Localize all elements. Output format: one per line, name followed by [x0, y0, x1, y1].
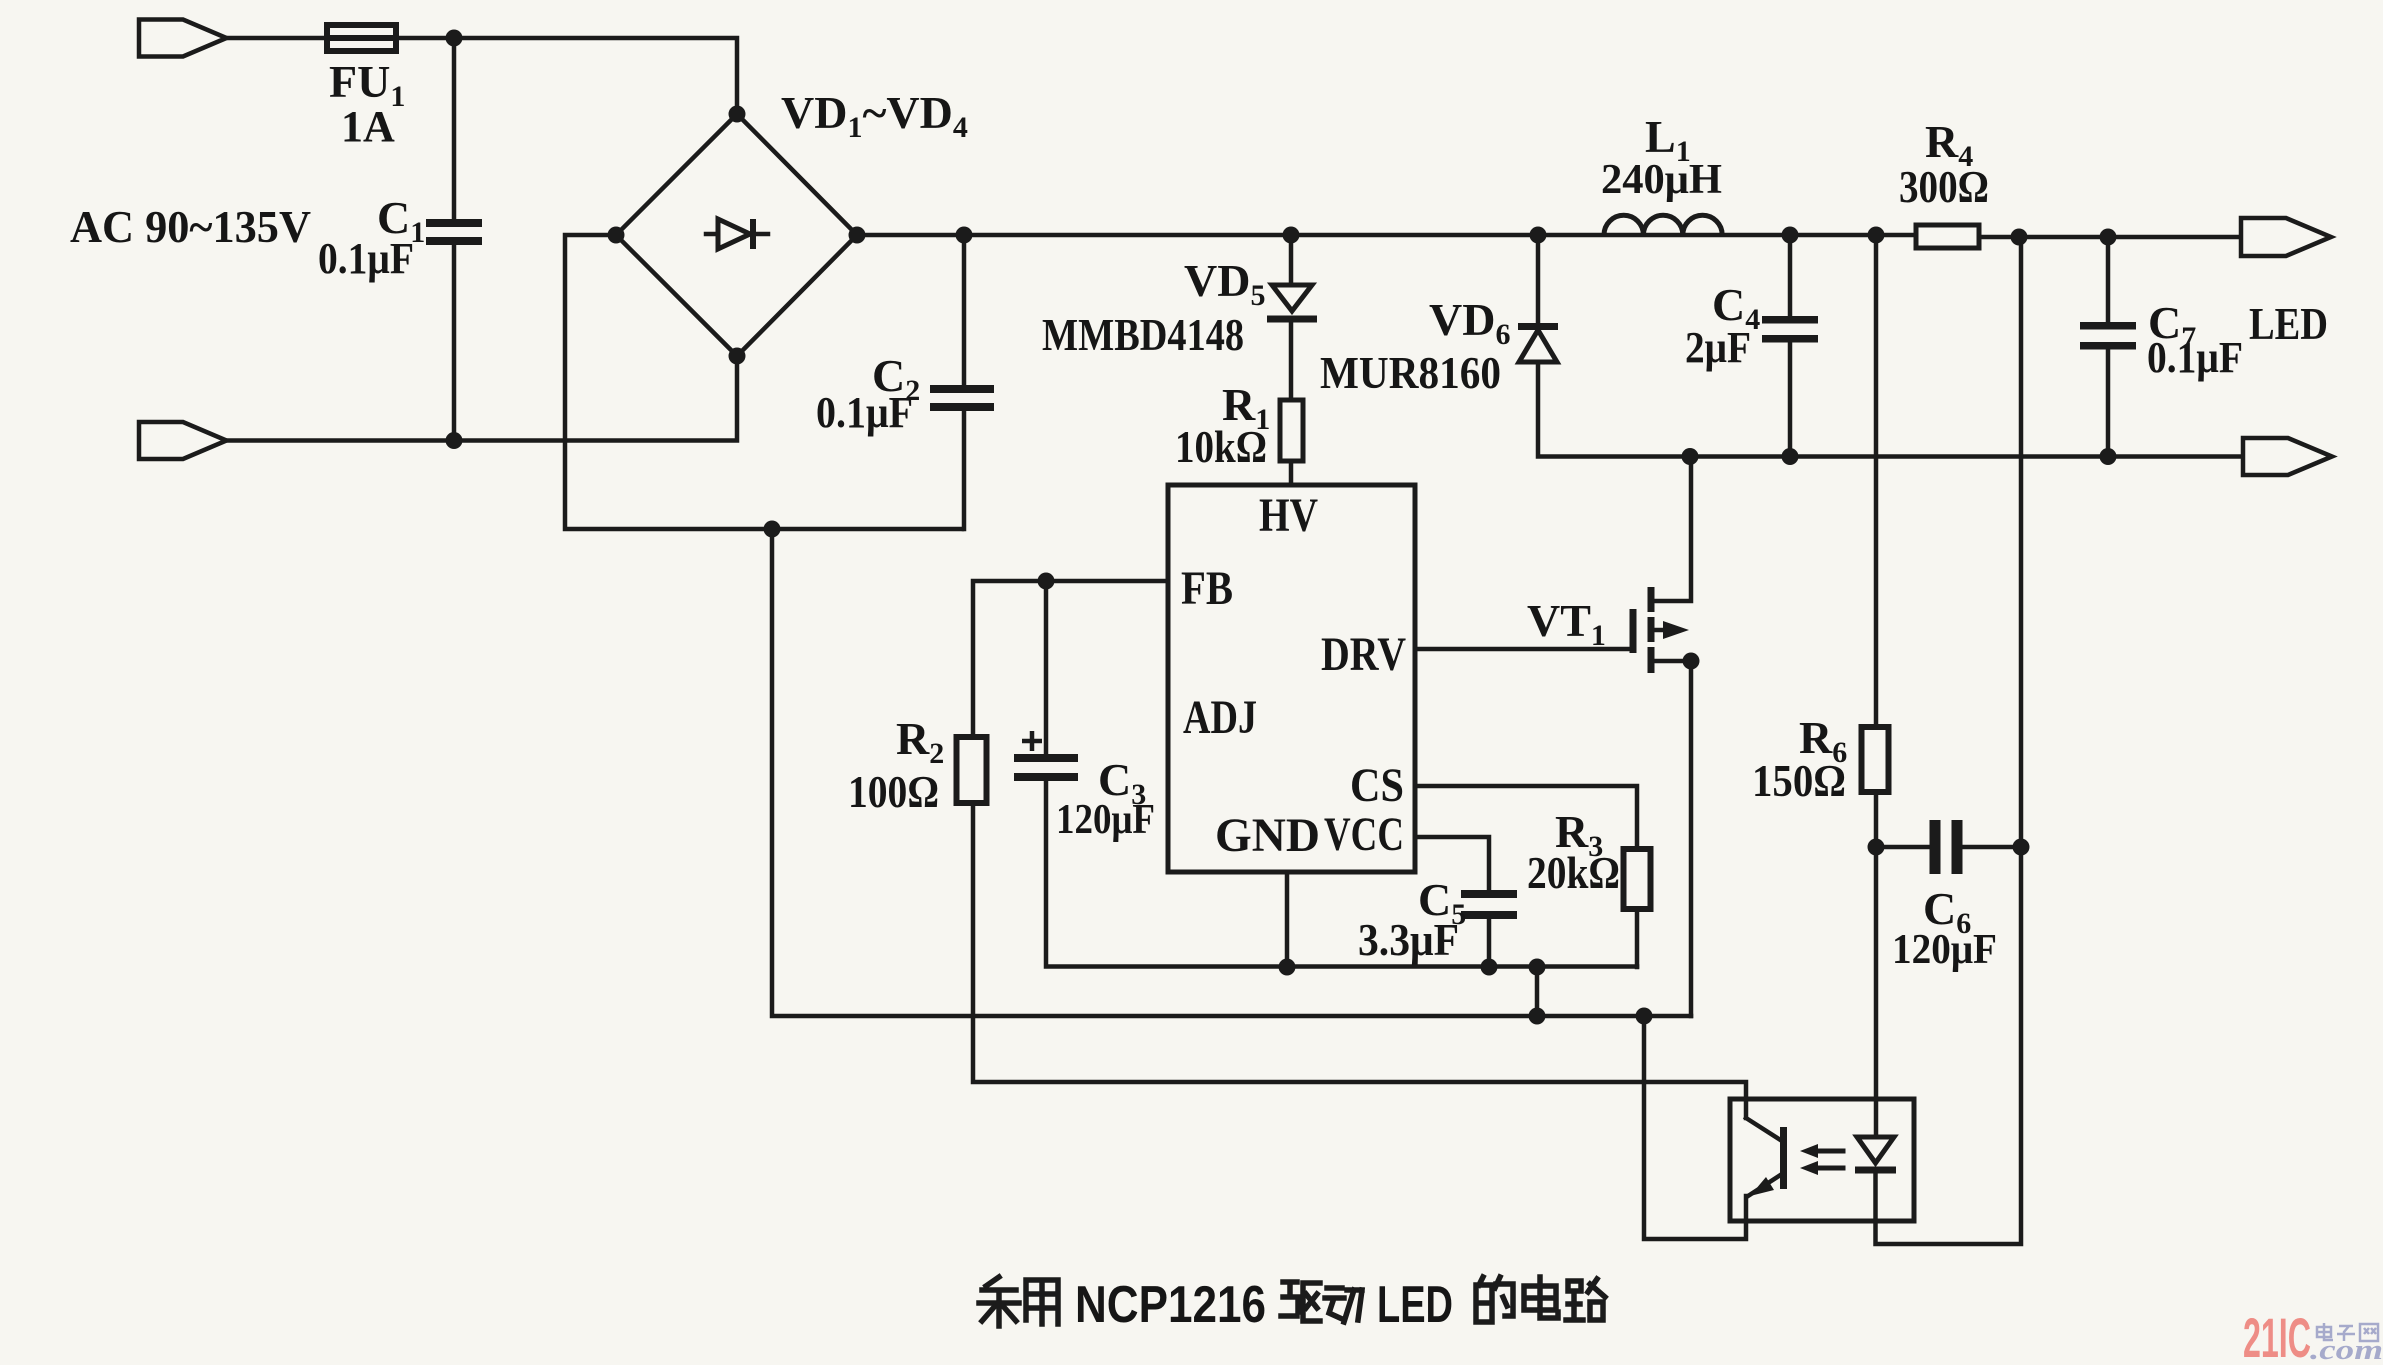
svg-text:NCP1216: NCP1216	[1075, 1276, 1266, 1334]
svg-text:150Ω: 150Ω	[1752, 755, 1846, 806]
svg-text:HV: HV	[1259, 489, 1318, 542]
svg-text:AC 90~135V: AC 90~135V	[70, 201, 311, 252]
svg-text:10kΩ: 10kΩ	[1175, 421, 1267, 472]
svg-text:1A: 1A	[341, 102, 395, 151]
svg-text:MMBD4148: MMBD4148	[1042, 309, 1244, 360]
svg-text:DRV: DRV	[1321, 628, 1406, 681]
svg-text:2μF: 2μF	[1685, 323, 1751, 372]
svg-text:LED: LED	[1377, 1276, 1453, 1334]
svg-text:100Ω: 100Ω	[848, 766, 939, 817]
svg-text:VCC: VCC	[1324, 808, 1404, 861]
svg-text:LED: LED	[2249, 298, 2328, 349]
svg-text:FB: FB	[1181, 562, 1233, 615]
svg-text:0.1μF: 0.1μF	[816, 388, 913, 437]
svg-text:GND: GND	[1215, 809, 1320, 862]
svg-text:.com: .com	[2310, 1335, 2383, 1365]
svg-text:ADJ: ADJ	[1183, 691, 1257, 744]
svg-text:MUR8160: MUR8160	[1320, 347, 1501, 398]
svg-text:120μF: 120μF	[1892, 927, 1997, 973]
svg-text:CS: CS	[1350, 759, 1404, 812]
svg-text:0.1μF: 0.1μF	[318, 234, 414, 283]
svg-text:300Ω: 300Ω	[1899, 161, 1989, 212]
svg-text:240μH: 240μH	[1601, 157, 1722, 203]
svg-text:21IC: 21IC	[2243, 1306, 2311, 1365]
svg-text:120μF: 120μF	[1056, 797, 1155, 843]
svg-text:0.1μF: 0.1μF	[2147, 333, 2243, 382]
svg-text:20kΩ: 20kΩ	[1527, 847, 1620, 898]
svg-text:3.3μF: 3.3μF	[1358, 914, 1459, 965]
svg-text:VD1~VD4: VD1~VD4	[781, 87, 968, 144]
